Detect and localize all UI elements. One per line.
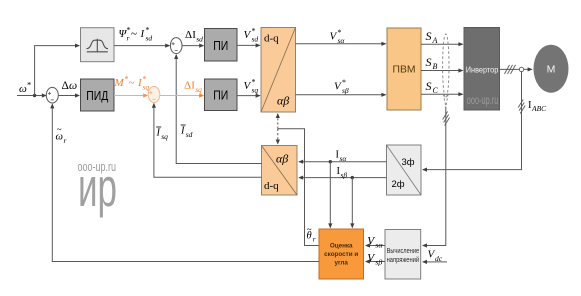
wire: PI d output V*_sd [237, 43, 261, 47]
svg-text:Δ: Δ [62, 80, 69, 92]
svg-text:V: V [334, 81, 342, 93]
svg-text:Инвертор: Инвертор [466, 64, 499, 74]
svg-text:sq: sq [195, 85, 202, 94]
sum junction: torque current error (orange) [148, 87, 160, 103]
svg-text:dc: dc [435, 254, 443, 263]
sum junction: delta I_sd [170, 38, 182, 54]
svg-text:ooo-up.ru: ooo-up.ru [467, 95, 499, 107]
wire: gate signal S_B [421, 68, 463, 72]
svg-text:~: ~ [129, 77, 135, 89]
wire: switching-state bus down to voltage calculation [422, 107, 446, 248]
block: PWM modulator [387, 28, 421, 110]
node: I_s beta branch dot [351, 176, 354, 179]
wire: I_s alpha down into estimator [328, 162, 332, 229]
block: PID speed controller [81, 79, 115, 111]
wire: inverter to motor [500, 67, 533, 71]
label omega_r tilde [56, 125, 67, 146]
svg-text:I: I [180, 126, 185, 137]
svg-text:αβ: αβ [277, 94, 289, 108]
svg-text:ир: ир [78, 156, 117, 218]
wire: V_s beta from voltage calc to estimator [365, 259, 385, 263]
svg-text:sα: sα [340, 154, 348, 163]
label S_B [426, 55, 438, 71]
svg-text:r: r [313, 235, 316, 244]
svg-text:sβ: sβ [375, 257, 382, 266]
three-phase hash on motor line [505, 65, 516, 74]
wire: gate signal S_A [421, 42, 463, 46]
label I_s alpha [336, 150, 348, 164]
block: voltage calculation [385, 230, 421, 280]
svg-text:~: ~ [131, 28, 137, 40]
svg-text:V: V [244, 29, 252, 41]
svg-text:~: ~ [57, 125, 62, 135]
wire: orange sum to PI q controller [160, 93, 204, 97]
svg-text:sβ: sβ [342, 86, 349, 95]
wire: I_s alpha to alpha-beta/d-q [298, 160, 386, 164]
svg-text:Δ: Δ [184, 79, 191, 91]
block: flux weakening profile [81, 28, 115, 62]
svg-text:ω: ω [19, 83, 27, 95]
wire: theta angle feed (solid part) from estimator [278, 129, 319, 246]
sum junction: speed error [46, 87, 58, 103]
svg-text:угла: угла [334, 260, 348, 267]
svg-text:I: I [156, 128, 161, 139]
wire: omega feedback long line to speed sum [50, 103, 319, 261]
svg-text:r: r [127, 34, 130, 43]
wire: theta dashed arrow down into alpha-beta block [276, 129, 280, 145]
svg-text:sq: sq [143, 83, 150, 92]
svg-text:М: М [547, 64, 556, 76]
wire: gate signal S_C [421, 92, 463, 96]
svg-text:r: r [64, 136, 67, 145]
block: PI controller U1 (d-axis) [205, 29, 238, 62]
motor M [534, 45, 569, 93]
wire: V*_s beta to PWM [296, 93, 387, 97]
wire: I_sd feedback up to sum [174, 54, 261, 164]
svg-text:2ф: 2ф [391, 179, 404, 190]
svg-text:S: S [426, 79, 432, 93]
block: d-q to alpha-beta transform [261, 28, 296, 113]
svg-text:ПИД: ПИД [86, 88, 108, 103]
svg-text:sd: sd [186, 130, 193, 139]
svg-text:V: V [330, 31, 338, 43]
svg-text:sα: sα [338, 36, 346, 45]
wire: speed error to PID [58, 93, 80, 97]
wire: omega* input line [17, 93, 47, 97]
svg-text:V: V [367, 252, 375, 264]
label I_ABC [528, 100, 547, 113]
svg-text:V: V [244, 80, 252, 92]
node: I_s alpha branch dot [329, 160, 332, 163]
svg-text:B: B [433, 62, 438, 71]
bus grouping ellipse (dashed) over gate signals [443, 34, 449, 107]
label I_s beta [337, 166, 348, 180]
wire: V_s alpha from voltage calc to estimator [365, 243, 385, 247]
svg-text:sq: sq [161, 132, 168, 141]
label V_s beta [367, 252, 382, 266]
wire: PI q output V*_sq [237, 94, 261, 98]
wire: I_sq feedback up to orange sum [152, 103, 262, 178]
label delta I_sq (orange) [184, 79, 202, 94]
wire: PID output torque ref (orange) [114, 93, 148, 97]
wire: V*_s alpha to PWM [296, 42, 387, 46]
svg-text:sd: sd [196, 34, 203, 43]
label delta omega [62, 80, 78, 92]
svg-text:Оценка: Оценка [330, 243, 353, 250]
svg-text:напряжений: напряжений [387, 256, 420, 264]
svg-text:d-q: d-q [264, 180, 279, 192]
three-phase hash on I_ABC [518, 100, 525, 114]
label V*_sd [244, 27, 259, 44]
svg-text:S: S [426, 29, 432, 43]
svg-text:3ф: 3ф [401, 157, 414, 168]
svg-text:ПИ: ПИ [213, 38, 228, 53]
block: inverter [464, 28, 500, 111]
label V*_s beta [334, 78, 349, 95]
wire: theta dashed arrow up into d-q block [276, 113, 280, 129]
label I_sq bar [156, 127, 169, 141]
label delta I_sd [185, 29, 203, 44]
three-phase hash on bus [443, 112, 450, 126]
svg-text:ABC: ABC [531, 104, 547, 113]
svg-text:sd: sd [146, 34, 153, 43]
svg-text:*: * [27, 80, 31, 90]
label S_C [426, 79, 439, 95]
label Psi*_r ~ I*_sd [119, 26, 153, 43]
label V*_s alpha [330, 28, 346, 45]
svg-text:sβ: sβ [341, 171, 348, 180]
block: alpha-beta to d-q transform [262, 146, 298, 196]
svg-text:M: M [114, 77, 125, 89]
label I_sd bar [180, 125, 193, 139]
node: branch dot on omega* line [33, 94, 36, 97]
svg-text:A: A [432, 36, 438, 45]
label S_A [426, 29, 438, 45]
label theta_r tilde [307, 225, 316, 244]
wire: sum to PI current controller d [182, 44, 204, 48]
svg-text:скорости и: скорости и [324, 251, 358, 258]
label V_dc [428, 249, 443, 264]
block: speed and angle estimator [319, 229, 364, 279]
svg-text:~: ~ [307, 225, 312, 235]
svg-text:C: C [433, 86, 439, 95]
block: PI controller U2 (q-axis) [205, 79, 238, 111]
svg-text:ПИ: ПИ [213, 87, 228, 102]
wire: branch up to flux profile block [35, 44, 80, 96]
svg-text:d-q: d-q [264, 33, 279, 45]
label M* ~ I*_sq (orange) [114, 75, 150, 92]
svg-text:Вычисление: Вычисление [387, 248, 420, 255]
wire: I_s beta down into estimator [350, 178, 354, 229]
wire: I_ABC measurement down to 3ph-2ph [422, 72, 522, 172]
svg-text:S: S [426, 55, 432, 69]
node: current tap on motor line [519, 67, 523, 71]
label V*_sq [244, 78, 259, 95]
wire: I_s beta to alpha-beta/d-q [298, 176, 386, 180]
svg-text:Δ: Δ [185, 29, 192, 41]
svg-text:αβ: αβ [276, 152, 288, 166]
label omega* [19, 80, 31, 96]
svg-text:ПВМ: ПВМ [393, 64, 416, 76]
block: 3 phase to 2 phase transform [387, 145, 422, 195]
svg-text:ω: ω [69, 80, 77, 92]
wire: V_dc input [422, 260, 447, 264]
label V_s alpha [367, 235, 383, 249]
svg-text:sd: sd [252, 35, 259, 44]
wire: profile output to sum junction [114, 44, 170, 48]
svg-text:sα: sα [375, 240, 383, 249]
svg-text:V: V [367, 235, 375, 247]
svg-text:sq: sq [252, 86, 259, 95]
